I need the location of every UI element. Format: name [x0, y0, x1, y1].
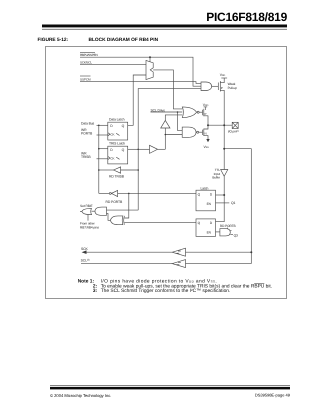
- svg-text:FIGURE 5-12:: FIGURE 5-12:: [38, 37, 69, 43]
- svg-text:TRISB: TRISB: [81, 155, 91, 159]
- svg-text:PORTB: PORTB: [81, 131, 93, 135]
- svg-text:Latch: Latch: [201, 186, 209, 190]
- svg-text:N: N: [205, 132, 207, 136]
- svg-text:BLOCK DIAGRAM OF RB4 PIN: BLOCK DIAGRAM OF RB4 PIN: [89, 37, 159, 43]
- svg-text:RBPU/SSPEN: RBPU/SSPEN: [80, 53, 97, 57]
- svg-text:SCL(3): SCL(3): [81, 258, 90, 262]
- svg-text:The SCL Schmitt Trigger confor: The SCL Schmitt Trigger conforms to the …: [101, 288, 231, 294]
- svg-text:VSS: VSS: [204, 145, 210, 149]
- svg-text:TRIS Latch: TRIS Latch: [109, 142, 125, 146]
- svg-text:SCL Drive: SCL Drive: [151, 108, 166, 112]
- svg-text:P: P: [205, 112, 207, 116]
- svg-text:CK: CK: [110, 157, 114, 161]
- svg-text:I/O pin(1): I/O pin(1): [228, 129, 239, 133]
- svg-text:Pull-up: Pull-up: [228, 86, 238, 90]
- svg-text:© 2004 Microchip Technology In: © 2004 Microchip Technology Inc.: [50, 393, 111, 398]
- svg-text:D: D: [110, 148, 113, 152]
- svg-text:RD PORTB: RD PORTB: [106, 200, 123, 204]
- svg-text:SCK/SCL: SCK/SCL: [80, 61, 92, 65]
- svg-text:PIC16F818/819: PIC16F818/819: [206, 10, 287, 24]
- svg-text:Q: Q: [122, 124, 125, 128]
- svg-text:RD PORTB: RD PORTB: [220, 224, 236, 228]
- svg-text:Data Latch: Data Latch: [109, 118, 125, 122]
- svg-text:3:: 3:: [93, 288, 98, 294]
- svg-text:RD TRISB: RD TRISB: [109, 175, 125, 179]
- svg-text:Buffer: Buffer: [212, 176, 220, 180]
- svg-text:SCK: SCK: [81, 247, 89, 251]
- svg-text:D: D: [110, 124, 113, 128]
- svg-text:VDD: VDD: [220, 73, 226, 77]
- svg-text:Data Bus: Data Bus: [81, 121, 95, 125]
- svg-text:Q: Q: [122, 148, 125, 152]
- svg-text:Q: Q: [198, 221, 201, 225]
- svg-text:Q3: Q3: [234, 233, 238, 237]
- svg-text:Q: Q: [198, 193, 201, 197]
- svg-text:Q1: Q1: [231, 201, 236, 205]
- svg-text:DS39598E-page 49: DS39598E-page 49: [255, 392, 291, 397]
- svg-text:EN: EN: [207, 202, 212, 206]
- svg-text:D: D: [210, 193, 213, 197]
- svg-text:CK: CK: [110, 133, 114, 137]
- svg-text:D: D: [210, 221, 213, 225]
- svg-text:SSPCM: SSPCM: [80, 77, 91, 81]
- svg-text:P: P: [221, 86, 223, 90]
- svg-text:Set RBIF: Set RBIF: [80, 204, 93, 208]
- svg-text:VDD: VDD: [203, 103, 209, 107]
- svg-text:EN: EN: [207, 230, 212, 234]
- svg-text:RB7:RB4 pins: RB7:RB4 pins: [80, 225, 99, 229]
